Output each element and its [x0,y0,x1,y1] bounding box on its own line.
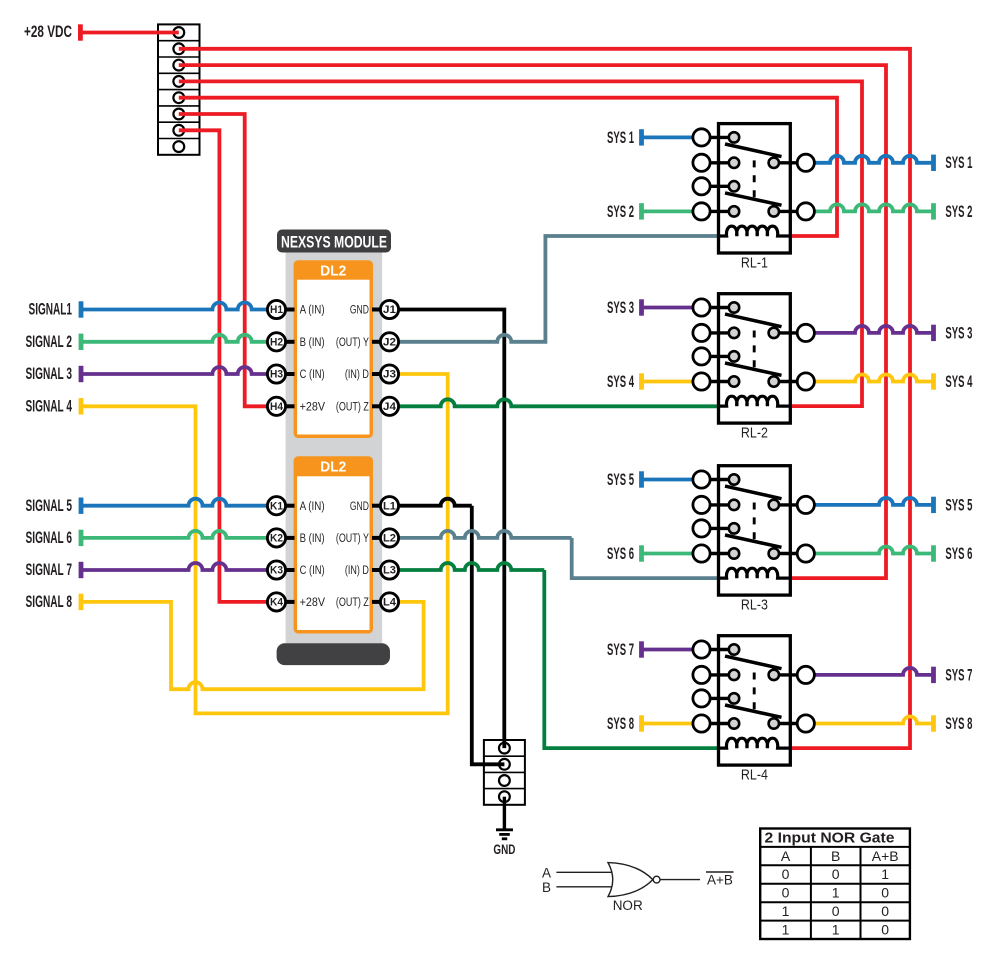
svg-text:SIGNAL 8: SIGNAL 8 [26,593,73,611]
svg-text:SYS 1: SYS 1 [607,129,634,147]
svg-text:0: 0 [881,922,889,938]
wire SYS output bottom RL-3 [814,547,933,554]
svg-text:RL-3: RL-3 [741,597,768,614]
pin J4 [372,404,382,408]
svg-text:A+B: A+B [872,848,899,864]
svg-text:SIGNAL 6: SIGNAL 6 [26,529,73,547]
svg-text:(OUT) Y: (OUT) Y [336,337,369,349]
GND terminal strip TB2 [484,740,525,805]
wire pin J1 GND to terminal strip [399,310,505,749]
pin H1 [284,308,295,312]
wire SYS output bottom RL-2 [814,375,933,382]
svg-text:0: 0 [832,903,840,919]
svg-text:K3: K3 [270,565,283,577]
svg-text:GND: GND [493,841,515,857]
logic module DL2 [294,456,373,633]
svg-text:GND: GND [350,501,369,513]
svg-text:A (IN): A (IN) [300,501,325,513]
svg-text:(IN) D: (IN) D [345,565,369,577]
svg-text:+28V: +28V [300,402,326,414]
svg-text:DL2: DL2 [320,459,346,476]
wire SYS input bottom RL-4 [639,715,644,731]
pin K3 [284,568,295,572]
wire SYS output bottom RL-4 [814,717,933,724]
wire pin L3 IN D to RL-4 coil [399,563,545,570]
svg-text:NOR: NOR [613,898,643,913]
wire pin J2 OUT Y to RL-1 coil [399,236,720,342]
wire SYS output top RL-1 [814,156,933,163]
svg-text:RL-4: RL-4 [741,767,768,784]
svg-text:A: A [781,848,791,864]
svg-text:DL2: DL2 [320,263,346,280]
NEXSYS module footer [277,643,390,665]
svg-text:SYS 5: SYS 5 [945,496,972,514]
svg-text:SYS 6: SYS 6 [945,545,972,563]
svg-text:A+B: A+B [707,873,733,888]
svg-text:(OUT) Y: (OUT) Y [336,533,369,545]
svg-text:B: B [831,848,840,864]
svg-text:L1: L1 [383,500,396,512]
pin L3 [372,568,382,572]
svg-text:C (IN): C (IN) [300,369,325,381]
svg-text:H4: H4 [270,401,284,413]
svg-text:0: 0 [782,885,790,901]
relay RL-4 [702,636,806,765]
svg-text:SYS 4: SYS 4 [945,373,972,391]
svg-text:K2: K2 [270,533,283,545]
wire SIGNAL 7 input [79,562,84,578]
svg-text:1: 1 [782,922,790,938]
svg-text:SYS 8: SYS 8 [607,715,634,733]
svg-text:SYS 5: SYS 5 [607,471,634,489]
svg-text:SIGNAL 4: SIGNAL 4 [26,398,73,416]
wire SYS output top RL-2 [814,326,933,333]
svg-text:SIGNAL 3: SIGNAL 3 [26,365,73,383]
wire SYS input bottom RL-1 [639,203,644,219]
ground symbol [503,797,506,830]
svg-text:2 Input NOR Gate: 2 Input NOR Gate [765,830,895,846]
wire SYS input bottom RL-3 [639,545,644,561]
svg-text:SYS 3: SYS 3 [945,324,972,342]
relay RL-1 [702,124,806,253]
svg-text:SYS 3: SYS 3 [607,299,634,317]
NEXSYS MODULE header [277,230,391,253]
wire SYS input top RL-4 [639,641,644,657]
wire pin L1 GND to terminal strip [399,499,472,506]
svg-text:SIGNAL1: SIGNAL1 [29,301,73,319]
wire SIGNAL4 to pin J3 [79,398,84,414]
svg-text:J4: J4 [383,401,397,413]
svg-text:RL-1: RL-1 [741,255,768,272]
svg-text:SYS 4: SYS 4 [607,373,634,391]
svg-text:(OUT) Z: (OUT) Z [336,597,369,609]
+28VDC terminal strip TB1 [158,24,200,154]
pin J3 [372,372,382,376]
svg-text:H1: H1 [270,304,283,316]
wire SIGNAL 3 input [79,366,84,382]
pin K2 [284,536,295,540]
wire SYS input top RL-3 [639,471,644,487]
pin H2 [284,340,295,344]
svg-text:B (IN): B (IN) [300,533,325,545]
svg-text:C (IN): C (IN) [300,565,325,577]
wire 28V bus to RL-4 coil [179,49,910,748]
wire SYS output top RL-3 [814,498,933,505]
pin K1 [284,504,295,508]
svg-text:A: A [542,866,551,881]
svg-text:SYS 6: SYS 6 [607,545,634,563]
wire 28V to pin K4 [179,130,268,602]
NEXSYS module gray body [286,240,383,643]
svg-text:J1: J1 [383,304,396,316]
wire +28VDC feed [78,24,83,40]
svg-text:+28V: +28V [300,597,326,609]
svg-text:1: 1 [782,903,790,919]
wire 28V bus to RL-3 coil [179,65,886,578]
wire SYS input top RL-1 [639,129,644,145]
svg-text:K1: K1 [270,500,283,512]
truth table 2 Input NOR Gate [760,829,910,940]
svg-text:0: 0 [881,903,889,919]
pin L2 [372,536,382,540]
wire 28V bus to RL-1 coil [179,98,837,236]
svg-text:1: 1 [832,922,840,938]
svg-text:B: B [542,880,551,895]
wire 28V bus to RL-2 coil [179,81,862,406]
svg-text:H3: H3 [270,369,283,381]
svg-text:L2: L2 [383,533,396,545]
svg-text:0: 0 [881,885,889,901]
svg-text:SYS 2: SYS 2 [945,203,972,221]
pin H4 [284,404,295,408]
svg-text:SYS 7: SYS 7 [607,641,634,659]
svg-text:(OUT) Z: (OUT) Z [336,402,369,414]
svg-text:SIGNAL 2: SIGNAL 2 [26,333,73,351]
wire SIGNAL 5 input [79,498,84,514]
wire SYS output bottom RL-1 [814,204,933,211]
pin J1 [372,308,382,312]
svg-text:0: 0 [832,866,840,882]
svg-text:SYS 7: SYS 7 [945,666,972,684]
svg-text:H2: H2 [270,337,283,349]
svg-text:SIGNAL 7: SIGNAL 7 [26,561,73,579]
svg-text:0: 0 [782,866,790,882]
svg-text:+28 VDC: +28 VDC [24,23,72,41]
pin L4 [372,600,382,604]
wire SYS input bottom RL-2 [639,373,644,389]
svg-text:L4: L4 [383,597,397,609]
wire SIGNAL1 input [79,301,84,317]
logic module DL2 [294,260,373,438]
wire pin J4 OUT Z to RL-2 coil [399,399,720,406]
svg-text:RL-2: RL-2 [741,425,768,442]
pin H3 [284,372,295,376]
svg-text:B (IN): B (IN) [300,337,325,349]
svg-text:1: 1 [832,885,840,901]
wire pin L2 OUT Y to RL-3 coil [399,531,572,538]
svg-text:J2: J2 [383,337,396,349]
wire SYS output top RL-4 [814,668,933,675]
svg-text:J3: J3 [383,369,396,381]
svg-text:SYS 2: SYS 2 [607,203,634,221]
wire 28V to pin H4 [179,114,268,406]
svg-text:A (IN): A (IN) [300,305,325,317]
svg-text:SIGNAL 5: SIGNAL 5 [26,497,73,515]
svg-text:L3: L3 [383,565,396,577]
svg-text:NEXSYS MODULE: NEXSYS MODULE [281,233,387,252]
wire SIGNAL 6 input [79,530,84,546]
relay RL-3 [702,466,806,595]
wire SIGNAL 2 input [79,334,84,350]
wire SIGNAL8 to pin L4 [79,594,84,610]
pin J2 [372,340,382,344]
relay RL-2 [702,294,806,423]
svg-text:1: 1 [881,866,889,882]
svg-text:SYS 1: SYS 1 [945,154,972,172]
svg-text:(IN) D: (IN) D [345,369,369,381]
svg-text:GND: GND [350,305,369,317]
pin L1 [372,504,382,508]
svg-text:SYS 8: SYS 8 [945,715,972,733]
NOR gate U1 [556,863,700,897]
pin K4 [284,600,295,604]
svg-text:K4: K4 [270,597,284,609]
wire SYS input top RL-2 [639,299,644,315]
